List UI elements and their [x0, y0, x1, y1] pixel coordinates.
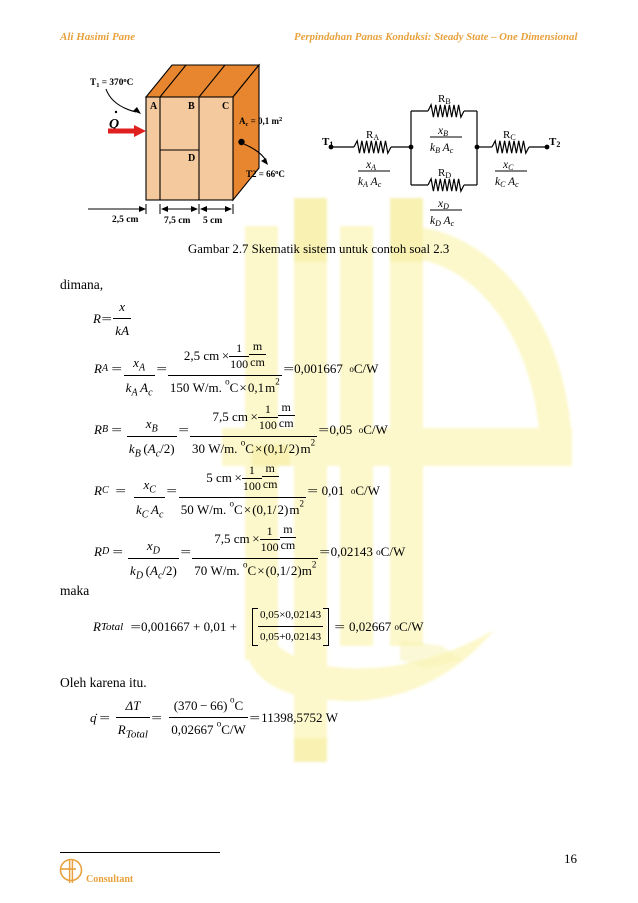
svg-text:T1: T1 — [322, 136, 333, 149]
svg-text:B: B — [188, 101, 195, 112]
svg-text:5 cm: 5 cm — [203, 216, 222, 226]
svg-text:kD Ac: kD Ac — [430, 215, 455, 228]
svg-text:kA Ac: kA Ac — [358, 176, 382, 189]
svg-text:kC Ac: kC Ac — [495, 176, 519, 189]
svg-text:C: C — [222, 101, 229, 112]
svg-text:Ac = 0,1 m2: Ac = 0,1 m2 — [239, 116, 282, 128]
svg-text:T1 = 370oC: T1 = 370oC — [90, 77, 133, 89]
svg-text:kB Ac: kB Ac — [430, 142, 454, 155]
svg-text:xA: xA — [365, 159, 376, 172]
svg-text:T2 = 66oC: T2 = 66oC — [246, 169, 285, 179]
svg-text:T2: T2 — [549, 136, 560, 149]
svg-text:xC: xC — [502, 159, 514, 172]
svg-text:RB: RB — [438, 93, 451, 106]
svg-text:D: D — [188, 153, 195, 164]
svg-text:xD: xD — [437, 198, 449, 211]
svg-text:RD: RD — [438, 167, 451, 180]
svg-text:RC: RC — [503, 129, 516, 142]
svg-text:A: A — [150, 101, 158, 112]
svg-text:7,5 cm: 7,5 cm — [164, 216, 190, 226]
svg-text:2,5 cm: 2,5 cm — [112, 215, 138, 225]
svg-text:RA: RA — [366, 129, 379, 142]
svg-text:xB: xB — [437, 125, 448, 138]
